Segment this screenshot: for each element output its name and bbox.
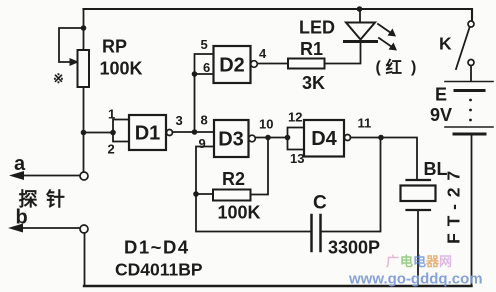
node RP top junction <box>81 25 87 31</box>
D1 output bubble <box>167 130 173 136</box>
wire bottom ground rail <box>84 285 472 287</box>
NAND gate D1 <box>129 115 166 150</box>
buzzer BL top lead plate <box>407 179 431 181</box>
battery cell dots <box>469 99 472 102</box>
svg-text:D2: D2 <box>219 55 245 77</box>
LED emission arrow 1 <box>378 24 391 33</box>
svg-text:9V: 9V <box>430 105 452 125</box>
wire probe a <box>22 175 80 177</box>
wire RP top lead <box>83 9 85 50</box>
svg-text:R2: R2 <box>222 169 245 189</box>
svg-text:www.go-gddq.com: www.go-gddq.com <box>348 271 483 288</box>
svg-text:100K: 100K <box>218 203 261 223</box>
capacitor C left plate <box>310 215 313 251</box>
probe a terminal circle <box>80 172 88 180</box>
svg-text:R1: R1 <box>300 39 323 59</box>
D2 output bubble <box>251 61 258 68</box>
watermark colored characters <box>386 254 452 269</box>
svg-text:2: 2 <box>108 142 115 157</box>
svg-text:广: 广 <box>386 254 399 269</box>
wire D3 pin 9 lead <box>196 147 214 195</box>
battery E positive long plate 1 <box>445 81 493 83</box>
wire D2 output to R1 <box>258 63 289 65</box>
svg-text:※: ※ <box>53 71 64 86</box>
svg-text:D1~D4: D1~D4 <box>124 237 190 258</box>
svg-text:红: 红 <box>386 57 403 77</box>
battery E short plate 1 <box>455 89 484 92</box>
D4 output bubble <box>345 135 351 141</box>
wire top supply rail <box>84 9 473 21</box>
svg-text:9: 9 <box>199 136 206 151</box>
svg-text:C: C <box>313 193 327 214</box>
battery E short plate 2 <box>454 133 485 136</box>
wire probe b ground lead <box>84 233 86 286</box>
wire D4 input fork pins 12,13 <box>288 128 305 150</box>
svg-text:CD4011BP: CD4011BP <box>115 260 203 280</box>
svg-text:3: 3 <box>176 113 183 128</box>
svg-text:b: b <box>16 207 28 229</box>
wire switch to battery <box>470 66 472 82</box>
probe a arrowhead <box>9 171 24 180</box>
svg-text:K: K <box>439 34 452 54</box>
svg-text:电: 电 <box>413 254 426 269</box>
svg-text:电: 电 <box>400 254 413 269</box>
svg-text:D3: D3 <box>218 129 244 151</box>
svg-text:3300P: 3300P <box>328 238 380 258</box>
wire LED anode lead <box>359 9 361 23</box>
wire R2 right lead to D3 output <box>251 138 269 195</box>
node D1 fork junction <box>110 130 116 136</box>
wire probe b <box>21 227 80 229</box>
battery E long plate 2 <box>445 126 493 128</box>
node D4 fork junction <box>285 135 291 141</box>
svg-text:网: 网 <box>439 254 452 269</box>
svg-text:LED: LED <box>299 18 335 38</box>
buzzer BL bottom plate <box>407 209 431 211</box>
probe b arrowhead <box>8 224 23 233</box>
svg-text:1: 1 <box>108 107 115 122</box>
wire C branch from D4 output <box>321 138 381 232</box>
svg-text:FT-27: FT-27 <box>444 164 464 244</box>
svg-text:a: a <box>14 153 26 175</box>
probe b terminal circle <box>80 225 88 233</box>
wire R1 to LED cathode <box>325 42 361 64</box>
NAND gate D4 <box>304 120 344 157</box>
node R2 / pin9 / C junction <box>193 191 199 197</box>
node LED anode junction <box>357 6 363 12</box>
svg-text:100K: 100K <box>100 59 143 79</box>
node D2 pin6 junction <box>192 71 198 77</box>
svg-text:E: E <box>435 85 447 105</box>
wire D1 input fork pins 1,2 <box>113 120 129 142</box>
wire D1 output to D3 pin 8 <box>173 131 215 133</box>
buzzer BL body <box>401 186 436 202</box>
wire D2 branch vertical <box>194 74 196 132</box>
wire battery negative lead <box>471 134 473 286</box>
RP wiper arrow <box>70 58 80 66</box>
wire C to R2 node <box>196 194 311 232</box>
node D4 output junction <box>378 135 384 141</box>
node RP bottom / D1 input junction <box>81 130 87 136</box>
svg-text:器: 器 <box>425 254 440 269</box>
switch K arm <box>456 28 470 70</box>
wire D4 output to buzzer BL <box>351 138 418 180</box>
svg-text:D1: D1 <box>135 123 161 145</box>
wire RP wiper loop <box>59 28 84 62</box>
svg-text:RP: RP <box>102 37 127 57</box>
NAND gate D2 <box>214 46 251 83</box>
svg-text:10: 10 <box>259 117 273 132</box>
wire D3 output to D4 fork <box>256 137 288 139</box>
potentiometer RP body <box>78 50 90 87</box>
node D3 output junction <box>265 135 271 141</box>
svg-text:(: ( <box>376 59 382 76</box>
LED emission arrow 2 <box>379 38 392 47</box>
svg-text:13: 13 <box>290 151 304 166</box>
LED triangle <box>346 23 375 40</box>
svg-text:11: 11 <box>358 116 372 131</box>
wire BL bottom lead <box>417 212 419 287</box>
svg-text:5: 5 <box>201 37 208 52</box>
svg-text:D4: D4 <box>311 128 337 150</box>
resistor R2 <box>213 190 251 201</box>
svg-text:12: 12 <box>288 110 302 125</box>
NAND gate D3 <box>214 120 249 157</box>
resistor R1 <box>288 59 325 69</box>
svg-text:3K: 3K <box>302 73 325 93</box>
wire D2 input fork pins 5,6 <box>195 54 214 74</box>
svg-text:4: 4 <box>259 46 267 61</box>
node D2 branch junction <box>192 129 198 135</box>
D3 output bubble <box>249 135 256 142</box>
switch K bottom contact <box>468 60 474 66</box>
wire R2 left lead <box>196 193 213 195</box>
capacitor C right plate <box>319 215 322 251</box>
svg-text:8: 8 <box>201 113 208 128</box>
LED cathode bar <box>345 40 377 43</box>
switch K top contact <box>468 21 474 27</box>
wire RP bottom lead to probe a <box>83 87 85 172</box>
wire to D1 input fork <box>84 132 114 134</box>
svg-text:): ) <box>411 59 416 76</box>
svg-text:6: 6 <box>203 60 210 75</box>
